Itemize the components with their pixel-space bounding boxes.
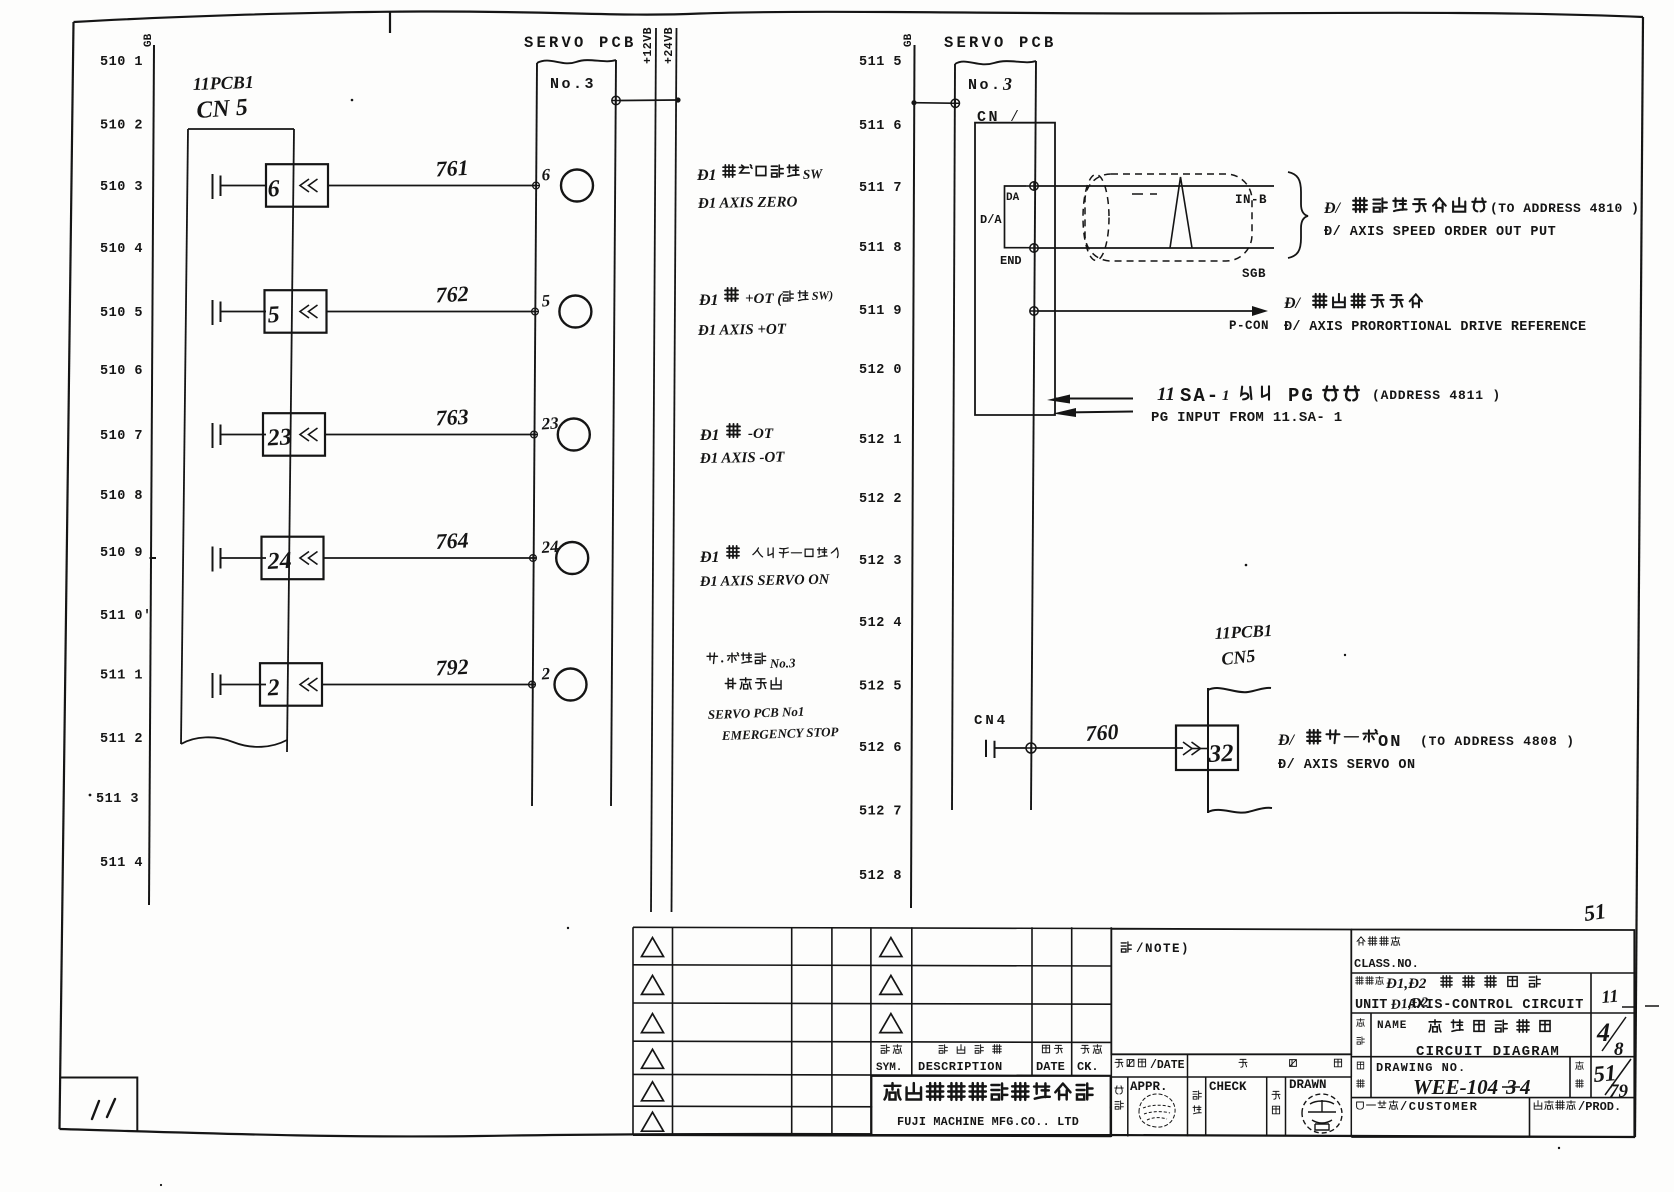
wire END to SGB: [1038, 247, 1274, 249]
svg-text:CK.: CK.: [1077, 1060, 1099, 1074]
wire 761: [328, 185, 536, 187]
svg-text:510 1: 510 1: [100, 55, 143, 70]
svg-text:511 7: 511 7: [859, 181, 902, 196]
svg-text:512 5: 512 5: [859, 680, 902, 695]
svg-text:CLASS.NO.: CLASS.NO.: [1354, 957, 1419, 971]
customer row: [1529, 1098, 1531, 1137]
capacitor C1 (contact symbol row 6): [213, 174, 221, 199]
svg-text:Đ1 AXIS -OT: Đ1 AXIS -OT: [699, 450, 786, 468]
capacitor C2 (contact symbol row 5): [213, 300, 221, 325]
junction on left servo box top to +24VB: [612, 96, 620, 104]
svg-text:/NOTE): /NOTE): [1136, 942, 1190, 956]
pin P-CON junction: [1030, 307, 1038, 315]
sheet number box (bottom left): [60, 1078, 138, 1132]
capacitor C4 (contact symbol row 24): [213, 547, 221, 572]
wire from C4 to box 24: [221, 557, 267, 559]
terminal box 2 on CN5: [260, 663, 322, 706]
svg-text:512 1: 512 1: [859, 433, 902, 448]
svg-text:510 6: 510 6: [100, 364, 143, 379]
wire 762: [327, 311, 537, 313]
svg-text:(TO ADDRESS 4808 ): (TO ADDRESS 4808 ): [1420, 734, 1575, 749]
svg-text:11: 11: [1157, 384, 1175, 405]
junction node pin 24 on servo pcb: [530, 555, 537, 562]
unit name row: [1590, 973, 1592, 1013]
svg-text:51: 51: [1582, 898, 1607, 926]
left line number column 5101-5114: [96, 55, 152, 871]
terminal box 32 on 11PCB1 CN5: [1176, 726, 1238, 771]
svg-text:763: 763: [435, 404, 469, 431]
svg-text:Đ1: Đ1: [698, 292, 719, 309]
company name FUJI MACHINE: [885, 1083, 1093, 1129]
note D1 axis speed order output (jp): [1323, 198, 1639, 217]
wire from C2 to box 5: [221, 311, 267, 313]
svg-text:-OT: -OT: [748, 426, 774, 442]
right line number column 5115-5128: [859, 55, 902, 884]
svg-text:2: 2: [540, 664, 551, 684]
svg-text:SW: SW: [802, 166, 823, 182]
svg-text:CHECK: CHECK: [1209, 1080, 1247, 1094]
arrow chevrons into box 2: [300, 678, 318, 691]
stamp DRAWN: [1302, 1094, 1342, 1133]
junction node pin 23 on servo pcb: [531, 431, 538, 438]
note D1 axis +OT (jp): [698, 288, 833, 309]
terminal box 24 on CN5: [262, 537, 324, 580]
svg-text:SERVO PCB: SERVO PCB: [944, 34, 1057, 52]
svg-text:SA-: SA-: [1180, 385, 1220, 407]
svg-text:5: 5: [267, 302, 280, 329]
svg-text:512 4: 512 4: [859, 616, 902, 631]
svg-text:PG: PG: [1288, 385, 1315, 407]
note D1 AXIS +OT: [697, 321, 787, 339]
pin DA junction: [1026, 185, 1030, 187]
note servo pcb No.3 emergency stop (jp): [707, 653, 796, 689]
right SERVO PCB No.3 box: [952, 61, 1036, 810]
junction node pin 6 on servo pcb: [533, 182, 540, 189]
svg-text:2: 2: [266, 675, 280, 702]
junction node pin 2 on servo pcb: [529, 681, 536, 688]
wire 764: [324, 557, 537, 559]
wire 760: [995, 747, 1027, 749]
svg-text:11PCB1: 11PCB1: [1214, 621, 1273, 643]
svg-text:510 8: 510 8: [100, 489, 143, 504]
wire DA to IN-B: [1038, 185, 1274, 187]
svg-text:23: 23: [540, 413, 560, 433]
svg-text:Đ1 AXIS +OT: Đ1 AXIS +OT: [697, 321, 787, 339]
name row: [1371, 1013, 1591, 1057]
svg-text:UNIT: UNIT: [1355, 998, 1387, 1013]
svg-text:8: 8: [1614, 1039, 1624, 1060]
svg-text:No.: No.: [968, 77, 1003, 94]
arrow chevrons into box 24: [300, 552, 318, 565]
svg-text:762: 762: [435, 281, 469, 308]
svg-text:511 4: 511 4: [100, 856, 143, 871]
left SERVO PCB No.3 box: [532, 60, 616, 806]
svg-text:IN-B: IN-B: [1235, 193, 1267, 207]
net GB left bus wire: [149, 45, 156, 905]
svg-text:511 9: 511 9: [859, 304, 902, 319]
svg-text:511 8: 511 8: [859, 241, 902, 256]
note D1 AXIS ZERO: [697, 194, 798, 212]
polarity dashes: [1132, 193, 1157, 195]
note D1 axis servo ON (jp): [1277, 730, 1575, 752]
svg-text:SGB: SGB: [1242, 267, 1266, 281]
pin circle 24: [556, 542, 588, 574]
svg-text:764: 764: [435, 527, 469, 554]
arrow chevrons into box 5: [300, 305, 318, 318]
svg-text:AXIS-CONTROL CIRCUIT: AXIS-CONTROL CIRCUIT: [1408, 998, 1584, 1013]
svg-text:23: 23: [266, 424, 292, 451]
note PG input from 11SA-1 (jp): [1157, 384, 1501, 407]
stamp APPR: [1139, 1094, 1175, 1127]
svg-text:510 2: 510 2: [100, 119, 143, 134]
note D1 axis interlock (jp): [699, 546, 838, 566]
svg-text:11PCB1: 11PCB1: [192, 72, 254, 94]
arrow chevrons into box 6: [300, 179, 318, 192]
note D1 AXIS SERVO ON: [699, 572, 830, 590]
svg-text:ON: ON: [1378, 733, 1402, 752]
svg-text:512 8: 512 8: [859, 869, 902, 884]
svg-text:SW): SW): [811, 288, 833, 303]
svg-text:Đ1: Đ1: [696, 167, 717, 184]
svg-text:WEE-104: WEE-104: [1413, 1075, 1498, 1099]
header SYM / DESCRIPTION / DATE / CK: [876, 1045, 1102, 1074]
svg-text:NAME: NAME: [1377, 1020, 1407, 1032]
svg-text:Đ/: Đ/: [1277, 732, 1296, 749]
note D1 axis zero set SW (jp): [696, 165, 824, 184]
terminal box 23 on CN5: [263, 413, 325, 456]
svg-text:CN 5: CN 5: [196, 94, 249, 124]
speed order pulse waveform: [1170, 177, 1192, 248]
capacitor C3 (contact symbol row 23): [213, 423, 221, 448]
date/approval strip: [1111, 1054, 1351, 1137]
svg-text:Đ/ AXIS PRORORTIONAL DRIVE REF: Đ/ AXIS PRORORTIONAL DRIVE REFERENCE: [1284, 320, 1586, 335]
svg-text:/PROD.: /PROD.: [1578, 1100, 1621, 1114]
svg-text:+12VB: +12VB: [642, 27, 655, 64]
power rail +12VB: [651, 28, 656, 912]
svg-text:511 3: 511 3: [96, 792, 139, 807]
svg-text:512 6: 512 6: [859, 741, 902, 756]
terminal box 6 on CN5: [266, 164, 328, 207]
svg-text:D/A: D/A: [980, 213, 1002, 227]
svg-text:4: 4: [1519, 1075, 1531, 1099]
note D1 axis P action order (jp): [1283, 294, 1422, 312]
svg-text:APPR.: APPR.: [1130, 1080, 1168, 1094]
svg-text:510 7: 510 7: [100, 429, 143, 444]
svg-text:24: 24: [266, 548, 292, 575]
note SERVO PCB No.1 EMERGENCY STOP: [708, 704, 840, 743]
svg-text:CN4: CN4: [974, 713, 1008, 729]
D/A converter block: [1005, 186, 1027, 248]
pin circle 6: [561, 170, 593, 202]
svg-text:511 5: 511 5: [859, 55, 902, 70]
svg-text:511 0': 511 0': [100, 609, 152, 624]
power rail +24VB: [672, 28, 677, 912]
svg-text:No.3: No.3: [769, 655, 797, 671]
class no. box: [1351, 930, 1634, 1138]
revision triangles column 1: [642, 938, 664, 1132]
svg-text:P-CON: P-CON: [1229, 319, 1269, 333]
svg-text:761: 761: [435, 155, 469, 182]
net GB right bus wire: [911, 45, 915, 908]
revision triangles column 2: [880, 938, 902, 1033]
svg-text:GB: GB: [143, 33, 155, 47]
svg-text:512 0: 512 0: [859, 363, 902, 378]
svg-text:SYM.: SYM.: [876, 1062, 902, 1074]
title block revision table grid: [633, 927, 1111, 1137]
wire from C1 to box 6: [221, 185, 267, 187]
svg-text:FUJI MACHINE MFG.CO.. LTD: FUJI MACHINE MFG.CO.. LTD: [897, 1115, 1079, 1129]
svg-text:792: 792: [435, 654, 469, 681]
svg-text:Đ/: Đ/: [1323, 200, 1342, 217]
svg-text:79: 79: [1609, 1081, 1629, 1102]
svg-text:11: 11: [1601, 986, 1620, 1007]
wire 763: [325, 434, 536, 436]
svg-text:No.3: No.3: [550, 76, 596, 93]
svg-text:512 2: 512 2: [859, 492, 902, 507]
svg-text:DRAWING NO.: DRAWING NO.: [1376, 1061, 1466, 1075]
svg-text:(TO ADDRESS 4810 ): (TO ADDRESS 4810 ): [1490, 201, 1639, 216]
connector CN1 box: [975, 123, 1055, 415]
capacitor C5 (contact symbol row 2): [213, 673, 221, 698]
pin END junction: [1026, 247, 1030, 249]
svg-text:Đ1,Đ2: Đ1,Đ2: [1385, 976, 1427, 992]
svg-text:GB: GB: [903, 33, 915, 47]
svg-text:Đ1: Đ1: [699, 427, 720, 444]
svg-text:END: END: [1000, 254, 1022, 268]
svg-text:32: 32: [1207, 740, 1234, 768]
wire from C3 to box 23: [221, 434, 267, 436]
pin circle 23: [558, 419, 590, 451]
svg-text:Đ/ AXIS SPEED ORDER OUT PUT: Đ/ AXIS SPEED ORDER OUT PUT: [1324, 225, 1556, 240]
svg-text:511 1: 511 1: [100, 669, 143, 684]
brace: [1288, 172, 1308, 258]
capacitor C6 (CN4 contact): [986, 740, 995, 758]
svg-text:/DATE: /DATE: [1150, 1059, 1185, 1072]
svg-text:DA: DA: [1006, 192, 1020, 204]
svg-text:DESCRIPTION: DESCRIPTION: [918, 1060, 1003, 1074]
svg-text:511 2: 511 2: [100, 732, 143, 747]
svg-text:6: 6: [267, 176, 280, 203]
note D1 axis -OT (jp): [699, 424, 774, 444]
wire P-CON with arrow: [1038, 306, 1268, 316]
wire 792: [322, 684, 536, 686]
svg-text:DATE: DATE: [1036, 1060, 1065, 1074]
svg-text:512 7: 512 7: [859, 805, 902, 820]
svg-text:512 3: 512 3: [859, 554, 902, 569]
svg-text:760: 760: [1085, 719, 1120, 746]
wire from C5 to box 2: [221, 684, 267, 686]
svg-text:510 4: 510 4: [100, 242, 143, 257]
sheet number 11 handwritten: [92, 1099, 115, 1119]
NOTE box: [1111, 929, 1351, 1055]
svg-text:+OT (: +OT (: [745, 291, 783, 307]
shielded cable (dashed capsule): [1083, 174, 1252, 261]
svg-text:+24VB: +24VB: [663, 27, 676, 64]
svg-text:/CUSTOMER: /CUSTOMER: [1400, 1100, 1478, 1114]
svg-text:Đ1 AXIS SERVO ON: Đ1 AXIS SERVO ON: [699, 572, 830, 590]
pin circle 2: [555, 669, 587, 701]
pin circle 5: [559, 296, 591, 328]
svg-text:511 6: 511 6: [859, 119, 902, 134]
svg-text:510 5: 510 5: [100, 306, 143, 321]
terminal box 5 on CN5: [265, 290, 327, 333]
svg-text:PG INPUT FROM 11.SA- 1: PG INPUT FROM 11.SA- 1: [1151, 410, 1342, 426]
svg-text:CIRCUIT DIAGRAM: CIRCUIT DIAGRAM: [1416, 1044, 1560, 1060]
svg-text:Đ/: Đ/: [1283, 295, 1302, 312]
svg-text:510 3: 510 3: [100, 180, 143, 195]
junction GB to right servo box: [911, 100, 916, 105]
drawing no row: [1371, 1057, 1591, 1098]
svg-text:(ADDRESS 4811 ): (ADDRESS 4811 ): [1372, 388, 1501, 403]
arrow chevrons into box 23: [300, 428, 318, 441]
svg-text:Đ1: Đ1: [699, 549, 720, 566]
svg-text:DRAWN: DRAWN: [1289, 1078, 1327, 1092]
PG input arrows: [1056, 399, 1133, 413]
note D1 AXIS -OT: [699, 450, 786, 468]
svg-text:1: 1: [1222, 388, 1230, 404]
arrow chevrons into box 32: [1183, 742, 1208, 755]
svg-text:SERVO PCB: SERVO PCB: [524, 34, 637, 52]
connector bracket 11PCB1 CN5 (right): [1208, 688, 1272, 813]
svg-text:Đ1 AXIS ZERO: Đ1 AXIS ZERO: [697, 194, 798, 212]
svg-text:Đ/ AXIS SERVO ON: Đ/ AXIS SERVO ON: [1278, 758, 1416, 773]
junction node pin 5 on servo pcb: [532, 308, 539, 315]
connector CN5 on 11PCB1 (left block): [181, 129, 294, 752]
svg-text:3: 3: [1002, 74, 1012, 94]
svg-text:510 9: 510 9: [100, 546, 143, 561]
svg-text:CN5: CN5: [1220, 646, 1256, 669]
